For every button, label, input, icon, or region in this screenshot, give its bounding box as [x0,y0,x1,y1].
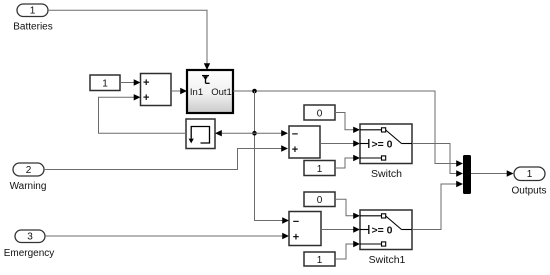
wire constant1b to Switch1 in3 [335,241,360,259]
wire Out1 branch to mux in1 [435,157,463,167]
svg-text:−: − [292,129,298,141]
wire Emergency to subtract2 plus [45,233,289,239]
constant 0 (bottom chain) [304,192,335,207]
svg-text:In1: In1 [190,87,203,98]
svg-text:3: 3 [27,231,33,242]
wire Batteries to subsystem trigger [48,10,210,70]
wire memory feedback to sum [99,94,187,133]
outport 1 Outputs [511,167,546,197]
svg-text:Emergency: Emergency [4,248,55,259]
svg-text:−: − [293,216,299,228]
svg-text:2: 2 [26,165,32,176]
svg-text:Batteries: Batteries [13,22,52,33]
subsystem U1 In1/Out1 [187,70,233,113]
trigger port icon on subsystem [202,76,210,84]
inport 3 Emergency [4,230,55,259]
svg-text:Switch: Switch [371,168,402,180]
svg-text:+: + [143,77,149,89]
mux bar [463,155,471,194]
svg-text:1: 1 [102,79,108,90]
inport 1 Batteries [13,4,52,33]
constant 0 (top chain) [304,105,335,120]
wire junction B left into memory block [215,130,255,136]
wire subsystem Out1 east with junction [233,91,435,158]
svg-text:1: 1 [30,5,36,16]
node junction A on Out1 line [252,89,257,94]
wire constant0 to Switch in1 [335,113,360,134]
memory block (loop icon) [186,119,215,149]
wire constant1 to Switch in3 [335,155,360,168]
Switch block [360,124,412,180]
svg-text:Switch1: Switch1 [369,254,406,266]
Switch1 block [360,210,412,266]
constant 1 (bottom chain) [304,252,335,266]
svg-text:+: + [293,232,299,244]
subtract2 block -+ [289,212,321,246]
wire sum to subsystem In1 [171,88,187,94]
wire junction B right into subtract1 minus [255,130,289,136]
svg-text:+: + [143,92,149,104]
wire junction A down to subtract2 [255,91,290,224]
subtract1 block -+ [289,126,320,158]
svg-text:+: + [292,144,298,156]
constant block value 1 (top) [90,75,120,91]
svg-text:Out1: Out1 [211,87,232,98]
svg-text:1: 1 [317,255,323,266]
wire constant to sum [120,79,141,85]
inport 2 Warning [10,163,47,192]
svg-text:>= 0: >= 0 [372,224,393,236]
wire subtract2 to Switch1 control [321,226,360,232]
sum block ++ [141,74,172,106]
node junction B on vertical line [252,131,257,136]
svg-text:Outputs: Outputs [511,186,546,197]
constant 1 (top chain) [304,161,335,176]
wire Switch to mux in2 [412,144,463,177]
wire constant0b to Switch1 in1 [335,199,360,219]
wire Switch1 to mux in3 [412,181,463,230]
svg-text:>= 0: >= 0 [372,138,393,150]
wire subtract1 to Switch control [320,140,360,146]
svg-text:1: 1 [527,169,533,180]
svg-text:Warning: Warning [10,181,47,192]
wire mux to outport [471,170,514,176]
svg-text:1: 1 [317,164,323,175]
wire Warning to subtract1 plus [44,145,288,169]
svg-text:0: 0 [317,108,323,119]
svg-text:0: 0 [317,195,323,206]
